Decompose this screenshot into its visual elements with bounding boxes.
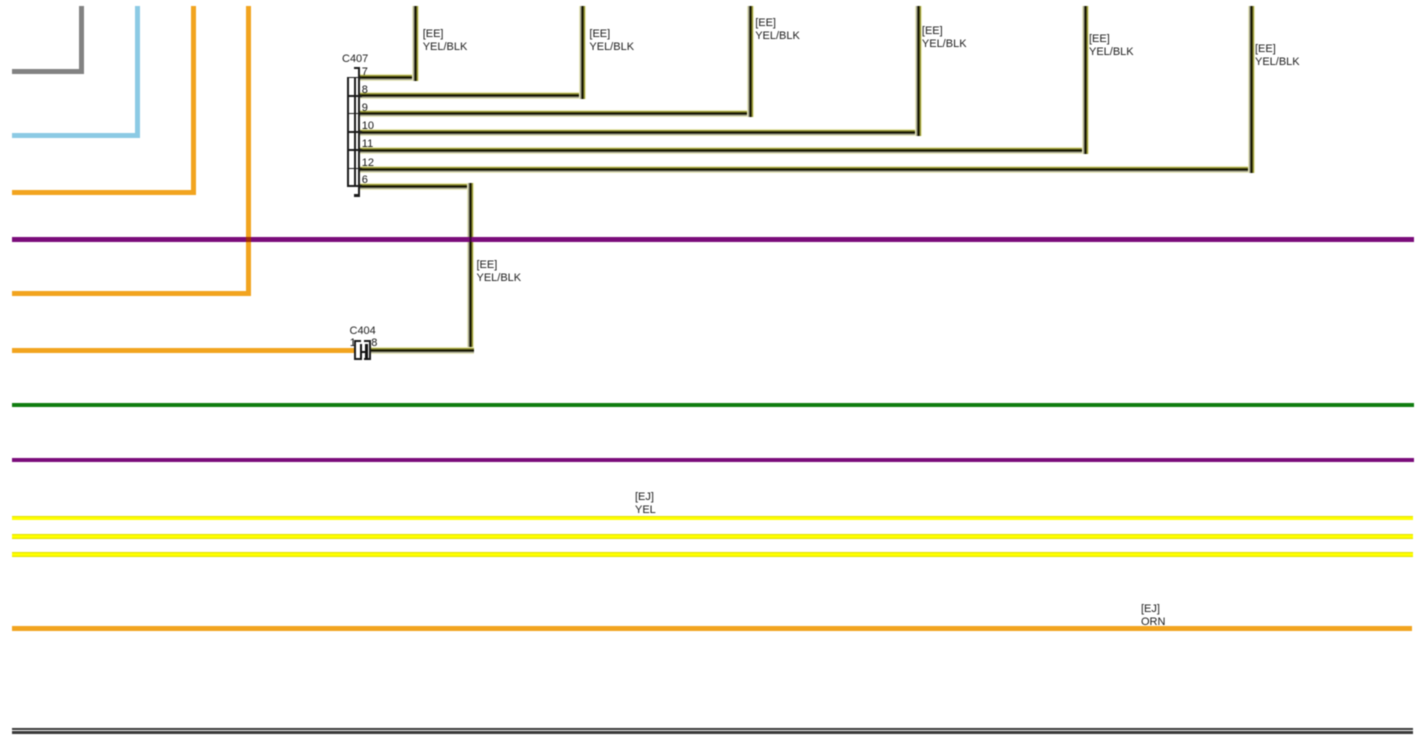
wire YEL/BLK C407 pin 12 vertical riser (1248, 6, 1255, 173)
wire yellow YEL bus 2 (12, 534, 1413, 539)
connector C404 name label (350, 325, 376, 338)
connector C407 rung pin 8 (347, 95, 362, 97)
wire YEL/BLK C407 pin 9 horizontal (360, 110, 754, 117)
connector C407 rung pin 6 (347, 185, 362, 187)
wire YEL/BLK C407 pin 11 horizontal (360, 147, 1089, 154)
connector C404 pin 8 label (371, 337, 377, 349)
wire YEL/BLK C407 pin 7 horizontal (360, 74, 419, 81)
wire YEL/BLK C407 pin 10 vertical riser (915, 6, 922, 136)
node crossing orange ORN x purple PPL blend (246, 237, 251, 242)
connector C404 right bracket top arm (364, 340, 371, 342)
connector C404 left bracket top arm (354, 340, 361, 342)
pin 11 label (362, 138, 373, 150)
wire yellow YEL bus 3 (12, 552, 1413, 557)
connector C407 face rail (358, 67, 360, 197)
wire orange ORN L-shape 1 vertical (191, 6, 196, 195)
connector C404 left bracket vertical (354, 340, 356, 360)
connector C407 rung pin 11 (347, 149, 362, 151)
connector C404 pin 1 label (350, 337, 356, 349)
pin 9 label (362, 102, 368, 114)
label [EE] YEL/BLK riser 3 (755, 17, 800, 43)
label [EE] YEL/BLK riser 1 (423, 28, 468, 54)
wire YEL/BLK C407 pin 6 horizontal (360, 183, 474, 190)
wire orange ORN L-shape 2 horizontal (12, 291, 251, 296)
wire YEL/BLK C407 pin 9 vertical riser (747, 6, 754, 117)
label [EE] YEL/BLK riser 4 (922, 25, 967, 51)
wire green GRN bus (12, 403, 1414, 408)
wire light blue LT-BLU L-shape vertical (135, 6, 140, 138)
wire YEL/BLK C407 pin 11 vertical riser (1082, 6, 1089, 154)
bottom rule lower line (12, 731, 1413, 734)
wire YEL/BLK C407 pin 7 vertical riser (412, 6, 419, 81)
connector C404 right bracket vertical (369, 340, 371, 360)
pin 6 label (362, 174, 368, 186)
pin 12 label (362, 157, 374, 169)
bottom rule upper line (12, 728, 1413, 731)
wire YEL/BLK C407 pin 6 vertical drop (467, 183, 474, 354)
wire orange ORN L-shape 1 horizontal (12, 190, 196, 195)
wire orange ORN [EJ] bus (12, 626, 1412, 631)
pin 7 label (362, 66, 368, 78)
connector C404 letter H right stroke (365, 344, 368, 360)
wire YEL/BLK C407 pin 8 horizontal (360, 92, 586, 99)
connector C404 letter H left stroke (360, 344, 363, 360)
wire orange ORN L-shape 2 vertical (246, 6, 251, 296)
connector C407 rung pin 9 (347, 113, 362, 115)
connector C404 left bracket bottom arm (354, 358, 361, 360)
wire orange ORN feed to C404 pin 1 (12, 348, 354, 353)
label [EJ] YEL bus (635, 491, 656, 517)
connector C407 body right rail (354, 77, 356, 187)
connector C407 face bottom hook (354, 194, 360, 196)
pin 10 label (362, 120, 374, 132)
node crossing YEL/BLK drop x purple PPL (purple drawn over wire) (467, 237, 474, 242)
wire light blue LT-BLU L-shape horizontal (12, 133, 140, 138)
label [EJ] ORN bus (1141, 603, 1165, 629)
wire YEL/BLK to C404 pin 8 horizontal (371, 347, 474, 354)
label [EE] YEL/BLK riser 2 (589, 28, 634, 54)
wire purple PPL (upper bus) (12, 237, 1414, 242)
connector C407 face top hook (354, 67, 360, 69)
wire yellow YEL bus 1 (12, 516, 1413, 521)
wire purple PPL (lower bus) (12, 458, 1414, 463)
wire YEL/BLK C407 pin 12 horizontal (360, 166, 1255, 173)
wire YEL/BLK C407 pin 10 horizontal (360, 129, 922, 136)
connector C407 rung pin 10 (347, 131, 362, 133)
connector C404 letter H crossbar (360, 351, 368, 353)
label [EE] YEL/BLK riser 6 (1255, 43, 1300, 69)
wire gray GRY L-shape vertical (79, 6, 84, 74)
wire YEL/BLK C407 pin 8 vertical riser (579, 6, 586, 99)
connector C407 rung pin 7 (347, 77, 362, 79)
pin 8 label (362, 84, 368, 96)
connector C407 name label (342, 53, 368, 66)
label [EE] YEL/BLK drop to C404 (477, 259, 522, 285)
connector C407 body left rail (347, 77, 349, 187)
connector C407 rung pin 12 (347, 168, 362, 170)
connector C404 right bracket bottom arm (364, 358, 371, 360)
wire gray GRY L-shape horizontal (12, 69, 84, 74)
label [EE] YEL/BLK riser 5 (1089, 33, 1134, 59)
